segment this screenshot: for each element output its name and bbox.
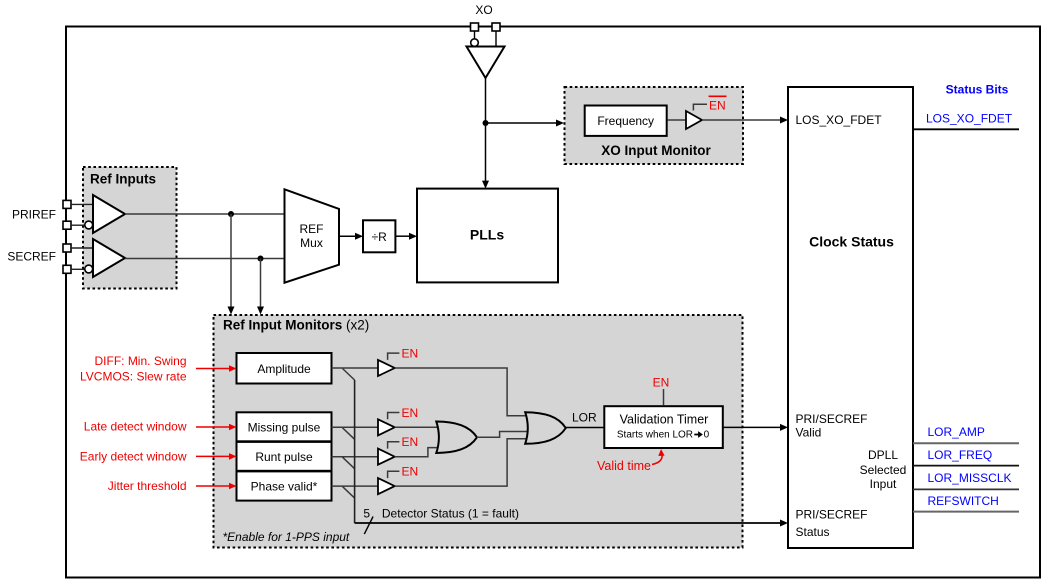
svg-text:Status: Status	[796, 525, 830, 539]
svg-text:Ref Inputs: Ref Inputs	[90, 171, 156, 186]
wire buffer A to OR2 top input	[395, 368, 527, 416]
svg-text:Amplitude: Amplitude	[257, 362, 311, 376]
Clock Status block	[788, 87, 913, 548]
wire SECREF+ to buffer	[71, 247, 93, 249]
valid time curved arrow	[652, 453, 662, 465]
wire XO branch to XO monitor	[486, 122, 557, 124]
svg-text:EN: EN	[402, 406, 419, 420]
wire OR1 to OR2 mid input	[477, 432, 527, 438]
svg-text:5: 5	[363, 506, 370, 520]
svg-text:LOR_MISSCLK: LOR_MISSCLK	[928, 471, 1012, 485]
wire SECREF to REF Mux	[125, 258, 285, 260]
svg-text:Clock Status: Clock Status	[809, 234, 894, 250]
junction dot SECREF tap	[258, 256, 264, 262]
svg-text:Detector Status (1 = fault): Detector Status (1 = fault)	[382, 506, 519, 520]
svg-text:REF: REF	[300, 222, 324, 236]
svg-text:EN: EN	[653, 376, 670, 390]
EN buffer D	[378, 478, 395, 494]
svg-text:Status Bits: Status Bits	[946, 83, 1009, 97]
SECREF input buffer	[93, 239, 125, 277]
svg-text:Validation Timer: Validation Timer	[620, 413, 709, 427]
detector status bus horizontal	[355, 522, 781, 524]
svg-text:EN: EN	[402, 465, 419, 479]
svg-text:PRI/SECREF: PRI/SECREF	[796, 508, 868, 522]
svg-text:LOR_AMP: LOR_AMP	[928, 425, 985, 439]
PRIREF inversion bubble	[85, 221, 93, 229]
validation timer block	[604, 406, 723, 448]
OR gate 2	[525, 412, 566, 444]
svg-text:Missing pulse: Missing pulse	[248, 420, 321, 434]
bus width slash	[364, 517, 373, 535]
wire REF Mux to divider	[339, 235, 356, 237]
XO Input Monitor group box	[565, 87, 744, 164]
Ref Inputs group box	[83, 167, 177, 289]
svg-text:Valid time: Valid time	[597, 459, 651, 473]
wire buffer B to OR1 top input	[395, 426, 439, 428]
runt pulse detector block	[237, 442, 332, 471]
svg-text:Valid: Valid	[796, 425, 822, 439]
inversion bubble on XO buffer	[471, 39, 479, 47]
red arrow to runt pulse	[196, 455, 230, 457]
wire missing pulse to EN buffer B	[332, 426, 379, 428]
svg-text:PRI/SECREF: PRI/SECREF	[796, 412, 868, 426]
svg-text:Starts when LOR: Starts when LOR	[617, 430, 693, 441]
svg-text:Late detect window: Late detect window	[84, 420, 187, 434]
wire PRIREF- to bubble	[71, 224, 85, 226]
pin XO+	[471, 23, 479, 31]
detector status bus vertical	[354, 380, 356, 523]
svg-text:Runt pulse: Runt pulse	[255, 450, 313, 464]
svg-text:REFSWITCH: REFSWITCH	[928, 494, 999, 508]
wire buffer C to OR1 bottom input	[395, 448, 439, 457]
svg-text:XO Input Monitor: XO Input Monitor	[601, 143, 711, 158]
wire frequency to EN buffer	[668, 119, 687, 121]
pin PRIREF-	[63, 221, 71, 229]
wire XO monitor to LOS_XO_FDET	[702, 119, 781, 121]
svg-text:PLLs: PLLs	[470, 227, 504, 243]
wire amplitude to EN buffer A	[332, 367, 379, 369]
pin SECREF-	[63, 265, 71, 273]
PLLs block	[417, 189, 558, 283]
wire XO buffer to PLLs	[485, 78, 487, 187]
svg-text:÷R: ÷R	[372, 230, 388, 244]
svg-text:PRIREF: PRIREF	[12, 208, 56, 222]
wire PRIREF tap down to monitors	[230, 214, 232, 308]
divider R	[363, 220, 395, 252]
wire EN elbow	[693, 104, 707, 110]
OR gate 1	[436, 422, 477, 454]
wire validation timer to clock status	[722, 426, 781, 428]
pin PRIREF+	[63, 200, 71, 208]
svg-text:EN: EN	[402, 347, 419, 361]
wire SECREF tap down to monitors	[260, 259, 262, 309]
frequency detector block	[585, 106, 667, 136]
red arrow to amplitude	[196, 368, 230, 370]
wire XO- to buffer	[495, 31, 497, 47]
SECREF inversion bubble	[85, 265, 93, 273]
XO input buffer	[467, 47, 505, 79]
PRIREF input buffer	[93, 195, 125, 233]
svg-text:EN: EN	[709, 99, 726, 113]
svg-text:Phase valid*: Phase valid*	[251, 480, 318, 494]
Ref Input Monitors group box	[214, 315, 743, 548]
svg-text:*Enable for 1-PPS input: *Enable for 1-PPS input	[223, 530, 350, 544]
svg-text:Input: Input	[870, 477, 897, 491]
svg-text:LOS_XO_FDET: LOS_XO_FDET	[926, 111, 1013, 125]
bus tap diagonal 3	[343, 457, 355, 469]
amplitude detector block	[237, 353, 332, 384]
missing pulse detector block	[237, 412, 332, 441]
wire EN to validation timer	[663, 389, 665, 405]
wire phase valid to EN buffer D	[332, 485, 379, 487]
svg-text:SECREF: SECREF	[7, 250, 56, 264]
wire LOR to validation timer	[566, 427, 604, 429]
wire PRIREF+ to buffer	[71, 203, 93, 205]
svg-text:XO: XO	[475, 3, 492, 17]
wire PRIREF to REF Mux	[125, 213, 285, 215]
junction dot PRIREF tap	[228, 211, 234, 217]
svg-text:DPLL: DPLL	[868, 448, 898, 462]
EN buffer B	[378, 419, 395, 435]
wire divider to PLLs	[395, 235, 409, 237]
EN buffer A	[378, 360, 395, 376]
svg-text:Ref Input Monitors (x2): Ref Input Monitors (x2)	[223, 317, 369, 332]
wire XO+ to bubble	[474, 31, 476, 39]
svg-text:Selected: Selected	[860, 463, 907, 477]
bus tap diagonal 2	[343, 428, 355, 440]
wire SECREF- to bubble	[71, 268, 85, 270]
svg-text:Mux: Mux	[300, 236, 323, 250]
red arrow to phase valid	[196, 485, 230, 487]
svg-text:Early detect window: Early detect window	[80, 449, 187, 463]
red arrow to missing pulse	[196, 426, 230, 428]
EN buffer C	[378, 449, 395, 465]
svg-text:LVCMOS: Slew rate: LVCMOS: Slew rate	[80, 369, 187, 383]
junction dot XO branch	[483, 120, 489, 126]
bus tap diagonal 1	[343, 369, 355, 381]
EN buffer U2	[686, 111, 702, 129]
svg-text:Frequency: Frequency	[597, 114, 654, 128]
svg-text:EN: EN	[402, 435, 419, 449]
REF Mux	[285, 189, 340, 282]
phase valid detector block	[237, 471, 332, 500]
svg-text:Jitter threshold: Jitter threshold	[108, 479, 187, 493]
pin SECREF+	[63, 244, 71, 252]
pin XO-	[492, 23, 500, 31]
bus tap diagonal 4	[343, 487, 355, 499]
wire buffer D to OR2 bottom input	[395, 439, 527, 486]
svg-text:0: 0	[704, 430, 710, 441]
svg-text:DIFF: Min. Swing: DIFF: Min. Swing	[94, 354, 186, 368]
svg-text:LOR: LOR	[572, 411, 597, 425]
wire runt pulse to EN buffer C	[332, 456, 379, 458]
svg-text:LOS_XO_FDET: LOS_XO_FDET	[796, 113, 883, 127]
svg-text:LOR_FREQ: LOR_FREQ	[928, 448, 993, 462]
